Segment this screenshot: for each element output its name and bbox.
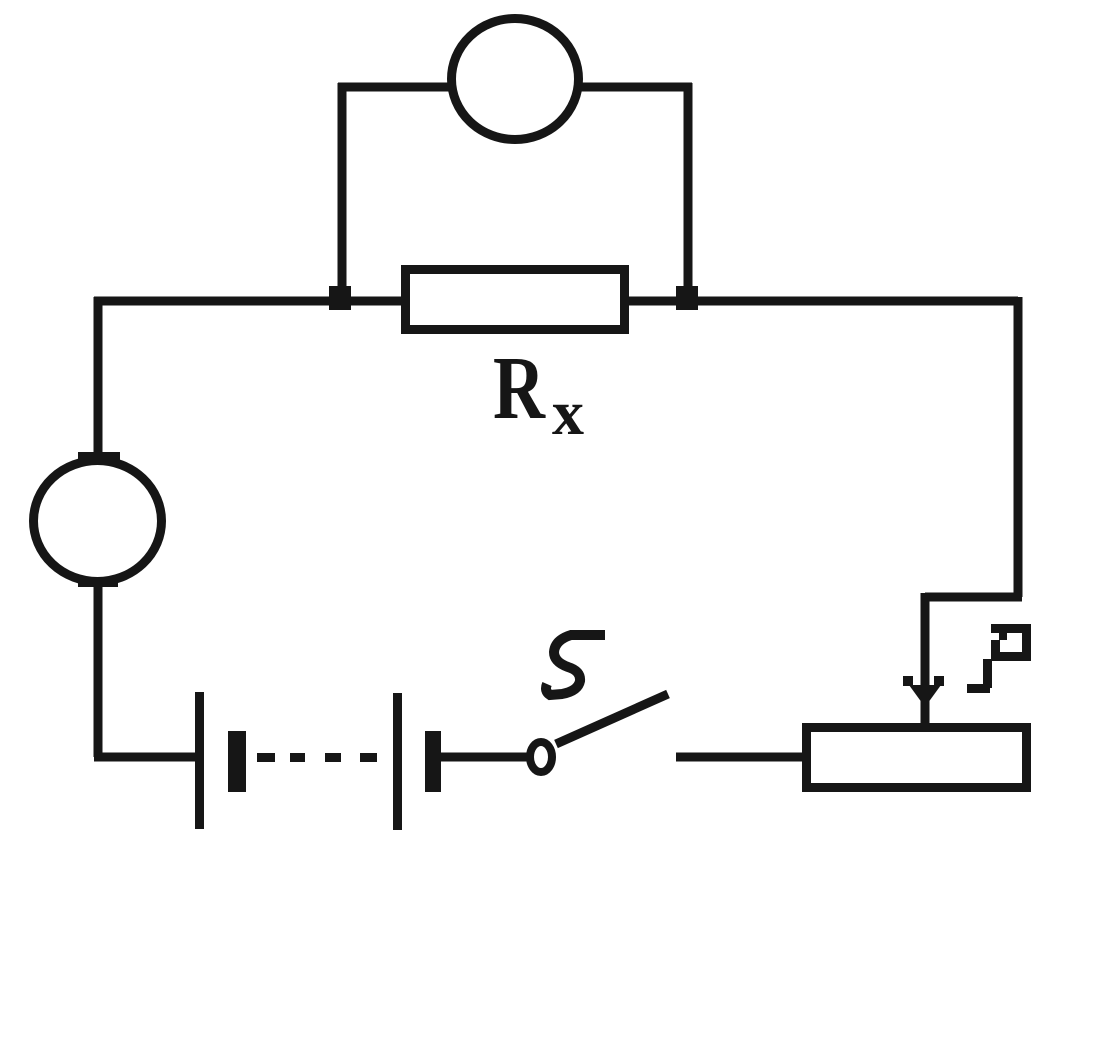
wire right vertical <box>1014 297 1023 597</box>
battery dashed link <box>257 753 377 762</box>
label Rx <box>493 337 584 448</box>
node junction A <box>329 286 351 310</box>
wire battery rail left <box>94 753 197 762</box>
resistor Rx <box>406 270 625 330</box>
ammeter top tick <box>78 452 120 460</box>
wiper stem <box>921 593 930 727</box>
label S <box>546 635 605 695</box>
label P loop <box>996 629 1027 657</box>
wire voltmeter branch right vertical <box>684 83 693 301</box>
ammeter bottom tick <box>78 579 118 587</box>
wire switch to rheostat <box>676 753 806 762</box>
label P loop notch <box>991 633 999 640</box>
node junction B <box>676 286 698 310</box>
label P loop tooth <box>999 632 1007 640</box>
battery cell 2 positive plate <box>393 693 402 830</box>
ammeter A1 <box>34 461 162 582</box>
voltmeter V1 <box>452 19 579 140</box>
rheostat body <box>807 728 1027 788</box>
wiper arrow barb left <box>903 676 913 686</box>
wire main rail left <box>94 297 404 306</box>
wire wiper horizontal <box>925 593 1022 602</box>
wire left vertical lower <box>94 584 103 757</box>
wire left vertical upper <box>94 297 103 458</box>
switch S lever <box>556 694 668 744</box>
svg-text:x: x <box>552 377 584 448</box>
svg-text:R: R <box>493 337 546 437</box>
wire battery to switch <box>441 753 528 762</box>
battery cell 1 positive plate <box>195 692 204 829</box>
label P stem <box>983 659 992 688</box>
wire main rail right <box>626 297 1018 306</box>
wire voltmeter branch left vertical <box>338 83 347 301</box>
switch S contact <box>530 742 552 772</box>
wiper arrowhead <box>909 685 941 707</box>
battery cell 1 negative plate <box>228 731 246 792</box>
battery cell 2 negative plate <box>425 731 441 792</box>
label P foot <box>967 684 990 693</box>
wiper arrow barb right <box>934 676 944 686</box>
wire top rail right segment <box>576 83 692 92</box>
wire top rail left segment <box>338 83 454 92</box>
